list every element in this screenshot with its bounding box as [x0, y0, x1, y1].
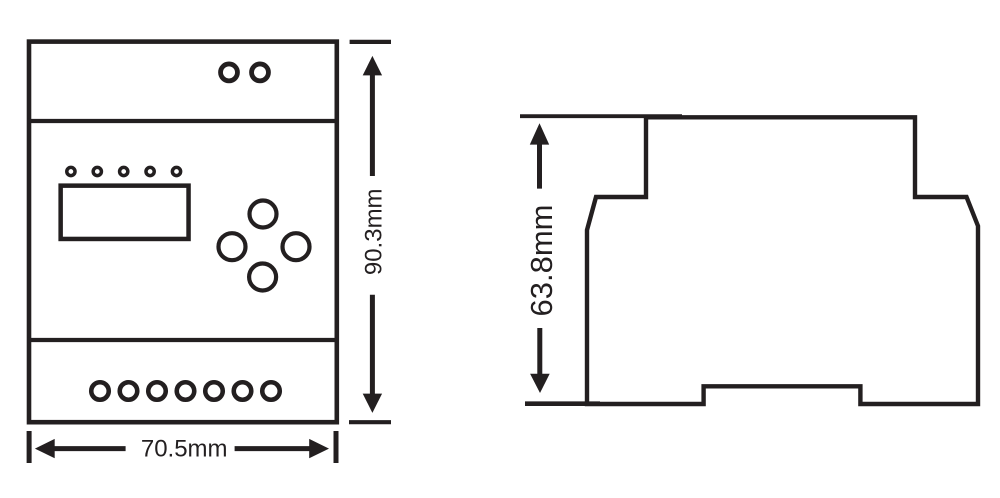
- height dimension top tick: [350, 40, 391, 44]
- LED 2: [93, 167, 101, 175]
- height dimension bottom tick: [349, 420, 391, 424]
- keypad button left: [219, 233, 246, 260]
- front view lower divider: [27, 338, 337, 342]
- terminal hole 4: [177, 382, 195, 400]
- height dimension bottom arrowhead: [363, 394, 382, 413]
- height dimension bottom shaft: [370, 295, 375, 395]
- depth dimension top shaft: [537, 144, 542, 189]
- width dimension right arrowhead: [309, 439, 329, 458]
- terminal hole 1: [91, 382, 109, 400]
- display window: [61, 186, 189, 239]
- width dimension left tick: [27, 431, 32, 463]
- top hole right: [252, 64, 269, 81]
- svg-text:90.3mm: 90.3mm: [360, 188, 387, 275]
- height dimension top shaft: [370, 75, 375, 177]
- LED 1: [67, 167, 75, 175]
- top hole left: [221, 64, 238, 81]
- LED 4: [146, 167, 154, 175]
- terminal hole 5: [205, 382, 223, 400]
- svg-text:70.5mm: 70.5mm: [141, 436, 228, 463]
- keypad button right: [283, 233, 310, 260]
- terminal hole 6: [234, 382, 252, 400]
- width dimension left shaft: [54, 446, 126, 451]
- LED 3: [120, 167, 128, 175]
- svg-text:63.8mm: 63.8mm: [524, 205, 559, 317]
- width dimension left arrowhead: [35, 439, 55, 458]
- depth dimension bottom extension line: [525, 401, 600, 406]
- keypad button down: [249, 264, 276, 291]
- terminal hole 2: [120, 382, 138, 400]
- width dimension right shaft: [235, 446, 311, 451]
- front view upper divider: [27, 119, 337, 123]
- side view profile: [587, 117, 978, 404]
- LED 5: [172, 167, 180, 175]
- terminal hole 7: [262, 382, 280, 400]
- depth dimension bottom shaft: [537, 328, 542, 375]
- front view outer body: [29, 42, 337, 423]
- depth dimension bottom arrowhead: [530, 374, 550, 393]
- keypad button up: [250, 201, 277, 228]
- width dimension right tick: [334, 431, 339, 463]
- depth dimension top extension line: [520, 114, 682, 118]
- depth dimension top arrowhead: [530, 123, 549, 144]
- terminal hole 3: [148, 382, 166, 400]
- height dimension top arrowhead: [363, 56, 382, 76]
